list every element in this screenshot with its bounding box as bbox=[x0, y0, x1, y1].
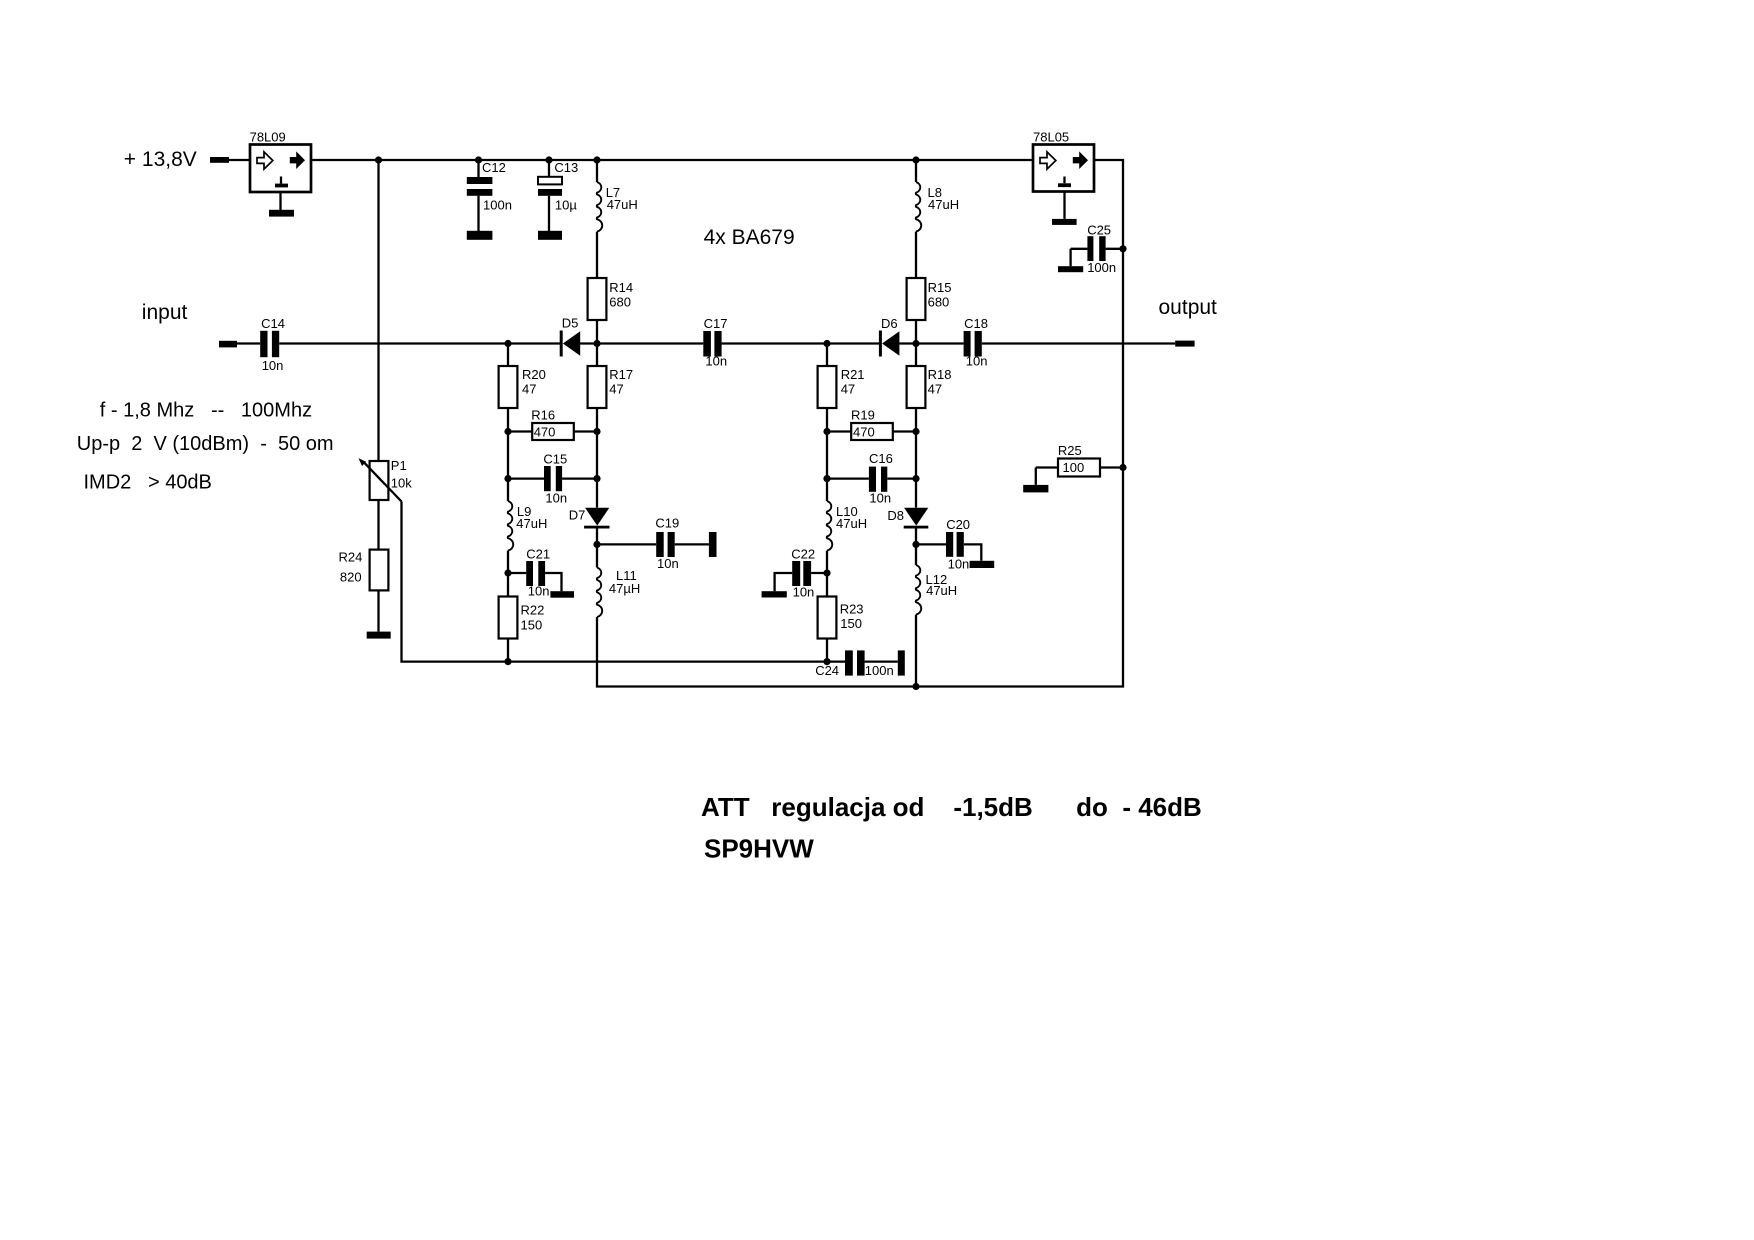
svg-text:47: 47 bbox=[609, 381, 623, 396]
svg-text:47uH: 47uH bbox=[926, 583, 957, 598]
svg-text:C19: C19 bbox=[655, 515, 679, 530]
svg-text:47uH: 47uH bbox=[607, 197, 638, 212]
svg-text:100: 100 bbox=[1063, 460, 1085, 475]
svg-text:C17: C17 bbox=[704, 316, 728, 331]
svg-text:C21: C21 bbox=[526, 546, 550, 561]
svg-text:R24: R24 bbox=[339, 550, 363, 565]
svg-text:R20: R20 bbox=[522, 367, 546, 382]
svg-text:10µ: 10µ bbox=[555, 197, 577, 212]
svg-text:47uH: 47uH bbox=[516, 516, 547, 531]
svg-text:C13: C13 bbox=[554, 160, 578, 175]
svg-text:10n: 10n bbox=[948, 556, 970, 571]
svg-text:C22: C22 bbox=[791, 546, 815, 561]
svg-text:10n: 10n bbox=[966, 354, 988, 369]
svg-text:78L05: 78L05 bbox=[1033, 130, 1069, 145]
svg-text:C24: C24 bbox=[815, 663, 839, 678]
svg-text:680: 680 bbox=[609, 294, 631, 309]
svg-text:47: 47 bbox=[841, 381, 855, 396]
svg-text:+ 13,8V: + 13,8V bbox=[124, 148, 197, 171]
svg-text:R14: R14 bbox=[609, 280, 633, 295]
svg-text:R15: R15 bbox=[928, 280, 952, 295]
svg-text:100n: 100n bbox=[483, 197, 512, 212]
svg-text:470: 470 bbox=[853, 424, 875, 439]
svg-text:R21: R21 bbox=[841, 367, 865, 382]
svg-text:150: 150 bbox=[521, 618, 543, 633]
svg-text:D5: D5 bbox=[562, 315, 579, 330]
svg-text:78L09: 78L09 bbox=[250, 129, 286, 144]
svg-text:ATT regulacja od -1,5dB: ATT regulacja od -1,5dB do - 46dB bbox=[701, 792, 1202, 822]
svg-text:47uH: 47uH bbox=[836, 516, 867, 531]
svg-text:10n: 10n bbox=[657, 556, 679, 571]
svg-text:D6: D6 bbox=[881, 316, 898, 331]
svg-text:SP9HVW: SP9HVW bbox=[704, 834, 814, 864]
svg-text:10n: 10n bbox=[793, 584, 815, 599]
svg-text:R19: R19 bbox=[851, 407, 875, 422]
svg-text:C16: C16 bbox=[869, 451, 893, 466]
svg-text:C12: C12 bbox=[482, 160, 506, 175]
svg-text:P1: P1 bbox=[391, 458, 407, 473]
svg-text:R17: R17 bbox=[609, 367, 633, 382]
svg-text:10n: 10n bbox=[528, 584, 550, 599]
svg-text:10n: 10n bbox=[262, 358, 284, 373]
svg-text:C25: C25 bbox=[1087, 222, 1111, 237]
svg-text:D8: D8 bbox=[887, 508, 904, 523]
svg-text:R25: R25 bbox=[1058, 443, 1082, 458]
svg-text:680: 680 bbox=[928, 294, 950, 309]
svg-text:100n: 100n bbox=[865, 663, 894, 678]
svg-text:820: 820 bbox=[340, 570, 362, 585]
svg-text:47: 47 bbox=[522, 381, 536, 396]
svg-text:47uH: 47uH bbox=[928, 197, 959, 212]
svg-text:100n: 100n bbox=[1087, 260, 1116, 275]
svg-text:input: input bbox=[142, 301, 188, 324]
svg-text:47: 47 bbox=[928, 381, 942, 396]
svg-text:47µH: 47µH bbox=[609, 581, 640, 596]
svg-text:Up-p 2 V (10dBm) - 50 om: Up-p 2 V (10dBm) - 50 om bbox=[77, 433, 334, 455]
svg-text:C18: C18 bbox=[964, 316, 988, 331]
svg-text:C20: C20 bbox=[946, 517, 970, 532]
svg-text:IMD2 > 40dB: IMD2 > 40dB bbox=[84, 472, 212, 494]
svg-text:150: 150 bbox=[840, 616, 862, 631]
svg-text:C15: C15 bbox=[543, 451, 567, 466]
svg-text:4x BA679: 4x BA679 bbox=[704, 226, 795, 249]
svg-text:R23: R23 bbox=[840, 602, 864, 617]
svg-text:C14: C14 bbox=[261, 316, 285, 331]
svg-text:10k: 10k bbox=[391, 476, 412, 491]
svg-text:output: output bbox=[1159, 296, 1218, 319]
svg-text:D7: D7 bbox=[569, 507, 586, 522]
svg-text:470: 470 bbox=[534, 424, 556, 439]
svg-text:10n: 10n bbox=[869, 491, 891, 506]
svg-text:10n: 10n bbox=[545, 490, 567, 505]
svg-text:10n: 10n bbox=[705, 354, 727, 369]
svg-text:R18: R18 bbox=[928, 367, 952, 382]
svg-text:R16: R16 bbox=[531, 407, 555, 422]
svg-text:f - 1,8 Mhz -- 100Mhz: f - 1,8 Mhz -- 100Mhz bbox=[100, 400, 312, 422]
svg-text:R22: R22 bbox=[521, 603, 545, 618]
